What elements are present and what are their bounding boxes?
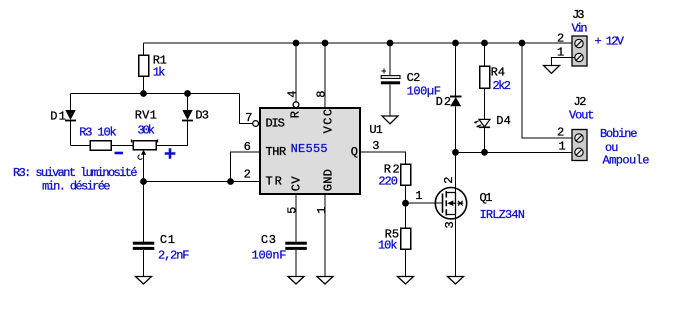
label plus	[165, 148, 176, 159]
junction R4 rail	[481, 40, 488, 47]
pin 7 bubble	[253, 121, 259, 127]
svg-text:R3 10k: R3 10k	[79, 126, 117, 140]
svg-text:min. désirée: min. désirée	[42, 180, 111, 194]
svg-text:Q1: Q1	[480, 191, 493, 205]
junction THR branch	[227, 178, 234, 185]
wire +12V top rail	[144, 42, 576, 44]
ground at J3	[544, 66, 560, 74]
diode D3	[182, 94, 209, 123]
svg-text:5: 5	[285, 207, 299, 214]
svg-text:NE555: NE555	[291, 142, 328, 156]
ground under C3	[288, 277, 304, 285]
wire pin 3 output	[360, 152, 406, 164]
capacitor C2	[381, 43, 420, 116]
wire J2 pin2 feed	[522, 43, 575, 138]
wire pin 1 GND	[324, 194, 326, 277]
svg-text:R3: suivant luminosité: R3: suivant luminosité	[13, 166, 138, 180]
ground under C2	[382, 116, 398, 124]
connector J2	[572, 95, 587, 161]
svg-text:100nF: 100nF	[252, 249, 287, 263]
wire output junction line	[456, 151, 576, 153]
resistor R5	[385, 203, 411, 276]
svg-text:2,2nF: 2,2nF	[158, 249, 190, 263]
svg-text:CV: CV	[290, 176, 304, 192]
svg-text:2: 2	[557, 126, 564, 140]
wire node to pin 7	[240, 94, 253, 124]
svg-text:THR: THR	[266, 145, 287, 159]
svg-text:2: 2	[557, 32, 564, 46]
svg-text:RV1: RV1	[135, 109, 157, 123]
junction D2/Q1 drain	[452, 149, 459, 156]
label Bobine ou Ampoule	[600, 127, 650, 168]
svg-text:IRLZ34N: IRLZ34N	[480, 208, 526, 222]
capacitor C1	[133, 233, 175, 277]
note R3 comment text	[13, 166, 138, 194]
ground under IC	[317, 277, 333, 285]
svg-text:Q: Q	[351, 145, 358, 159]
svg-text:1k: 1k	[153, 66, 166, 80]
junction wiper	[140, 178, 147, 185]
svg-text:J3: J3	[572, 8, 585, 22]
junction C2 rail	[387, 40, 394, 47]
svg-text:J2: J2	[574, 95, 587, 109]
wire RV1 to D3	[156, 121, 188, 146]
svg-text:6: 6	[244, 140, 251, 154]
svg-text:1: 1	[415, 189, 422, 203]
junction R4/D4	[481, 149, 488, 156]
diode D1	[50, 94, 76, 146]
pin 4 bubble	[293, 102, 299, 108]
junction J2 feed rail	[519, 40, 526, 47]
junction D3 top	[184, 90, 191, 97]
label minus	[115, 152, 124, 155]
svg-text:DIS: DIS	[266, 117, 285, 131]
svg-text:U1: U1	[369, 123, 383, 137]
wire J3 pin1 to ground	[552, 58, 576, 66]
ground under Q1	[448, 277, 464, 285]
transistor Q1	[435, 152, 492, 276]
svg-text:C3: C3	[261, 233, 276, 247]
junction R1 bottom	[140, 90, 147, 97]
junction gate node	[402, 200, 409, 207]
capacitor C3	[261, 233, 307, 277]
diode D2	[436, 43, 462, 152]
svg-text:7: 7	[245, 111, 252, 125]
potentiometer RV1	[132, 109, 158, 182]
svg-text:D3: D3	[195, 109, 209, 123]
wire TR/THR net	[144, 152, 261, 242]
svg-text:C1: C1	[160, 233, 175, 247]
junction D2 rail	[452, 40, 459, 47]
svg-text:Vin: Vin	[572, 22, 588, 36]
ground under C1	[136, 277, 152, 285]
IC U1 NE555 body	[260, 108, 360, 194]
wire pin 4	[295, 43, 297, 102]
svg-text:220: 220	[378, 175, 398, 189]
svg-text:3: 3	[443, 221, 457, 228]
svg-text:R4: R4	[491, 66, 506, 80]
LED D4	[474, 88, 511, 152]
svg-text:8: 8	[315, 91, 329, 98]
resistor R4	[480, 43, 506, 88]
svg-text:D4: D4	[496, 114, 511, 128]
svg-text:Vout: Vout	[569, 109, 595, 123]
svg-text:1: 1	[559, 140, 566, 154]
resistor R3	[79, 126, 117, 151]
svg-text:Ampoule: Ampoule	[603, 154, 650, 168]
wire R3 to RV1	[111, 145, 133, 147]
svg-text:VCC: VCC	[321, 109, 335, 134]
svg-text:Bobine: Bobine	[600, 127, 638, 141]
svg-text:2k2: 2k2	[493, 79, 512, 93]
wire pin 8	[324, 43, 326, 108]
wire D1 to R3	[71, 145, 91, 147]
svg-text:C2: C2	[407, 71, 421, 85]
resistor R1	[139, 43, 167, 94]
ground under R5	[398, 277, 414, 285]
svg-text:D1: D1	[50, 110, 66, 124]
svg-text:10k: 10k	[378, 239, 398, 253]
svg-text:4: 4	[285, 91, 299, 98]
junction pin8 rail	[322, 40, 329, 47]
resistor R2	[384, 163, 411, 204]
svg-text:+ 12V: + 12V	[595, 35, 625, 49]
svg-text:TR: TR	[266, 175, 282, 189]
junction pin4 rail	[293, 40, 300, 47]
svg-text:GND: GND	[321, 169, 335, 191]
wire gate	[406, 202, 443, 204]
connector J3	[572, 8, 587, 66]
svg-text:3: 3	[372, 139, 379, 153]
svg-text:2: 2	[442, 177, 456, 184]
svg-text:1: 1	[315, 207, 329, 214]
svg-text:R: R	[288, 111, 302, 118]
wire pin 5 to C3	[295, 194, 297, 242]
wire node line y=93.5	[71, 93, 240, 95]
svg-text:30k: 30k	[138, 124, 156, 138]
svg-text:2: 2	[244, 168, 251, 182]
svg-text:D2: D2	[436, 95, 452, 109]
